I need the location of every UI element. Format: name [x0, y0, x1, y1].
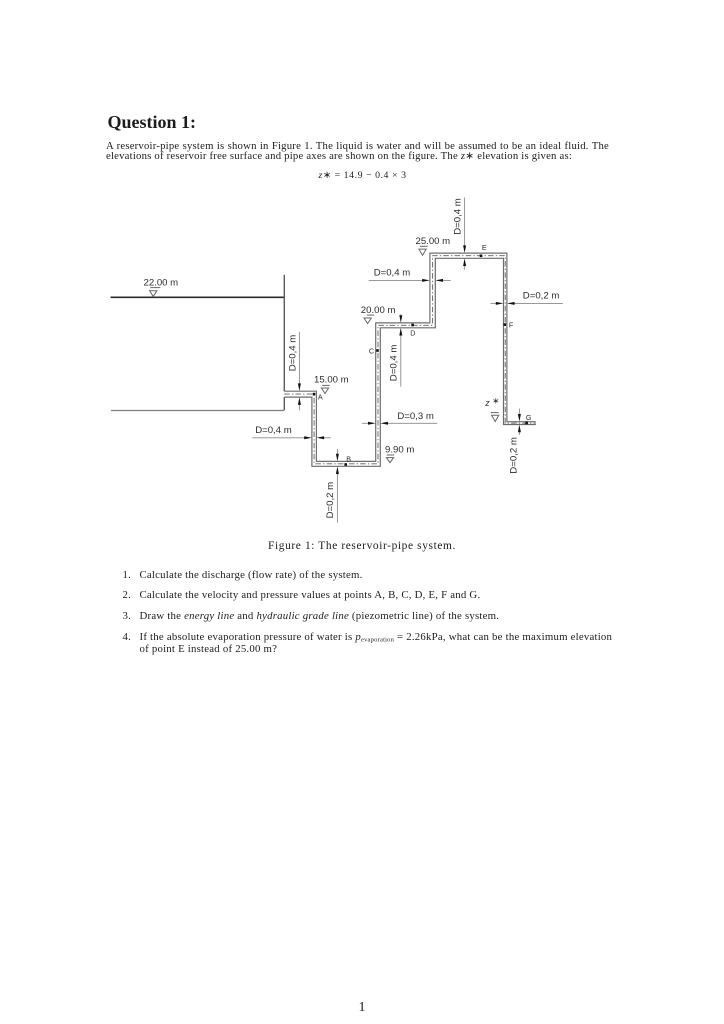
svg-text:F: F	[509, 321, 514, 330]
svg-text:E: E	[482, 243, 487, 252]
node A marker	[313, 393, 316, 396]
pipe centerline (dash-dot)	[284, 256, 536, 464]
list item 2	[123, 589, 132, 601]
svg-text:25.00 m: 25.00 m	[416, 236, 451, 247]
svg-text:z: z	[484, 398, 490, 408]
level marker 25.00 m	[419, 246, 428, 255]
dimension D=0,4 m for pipe at 25.00 m level (vertical dim line with rotated label)	[452, 198, 466, 270]
level marker 15.00 m	[321, 385, 329, 393]
dimension D=0,4 m for pipe A-B (horizontal dim line)	[252, 425, 330, 439]
svg-text:∗: ∗	[492, 396, 499, 406]
list item 4	[123, 631, 132, 643]
level marker 20.00 m	[364, 315, 374, 324]
svg-text:D=0,4 m: D=0,4 m	[389, 345, 400, 382]
dimension D=0,2 m for pipe E-F (horizontal dim line)	[490, 291, 563, 305]
paragraph	[106, 141, 609, 162]
svg-text:A: A	[318, 393, 323, 402]
pipe wall lower/inner polyline (A to G)	[284, 258, 536, 466]
node B marker	[344, 463, 347, 466]
svg-text:20.00 m: 20.00 m	[361, 305, 396, 316]
level marker 9.90 m	[386, 455, 394, 463]
dimension D=0,2 m at node B (vertical dim line with rotated label)	[325, 449, 339, 523]
reservoir right wall	[283, 275, 285, 410]
reservoir water surface line 22.00 m	[111, 296, 285, 298]
svg-text:C: C	[369, 346, 374, 355]
page number	[0, 1000, 724, 1016]
svg-text:D=0,4 m: D=0,4 m	[374, 268, 411, 279]
node F marker	[504, 323, 507, 326]
svg-text:G: G	[526, 413, 532, 422]
list item 3	[123, 610, 132, 622]
heading	[108, 112, 197, 133]
node E marker	[480, 255, 483, 258]
svg-text:D=0,2 m: D=0,2 m	[523, 291, 560, 302]
level marker 22.00 m	[150, 288, 161, 297]
svg-text:15.00 m: 15.00 m	[314, 374, 349, 385]
pipe wall upper/outer polyline (A to G)	[284, 253, 536, 461]
svg-text:D=0,2 m: D=0,2 m	[325, 482, 336, 519]
dimension D=0,4 m for pipe at 20.00 m level (vertical dim line with rotated label)	[389, 314, 403, 386]
dimension D=0,4 m for pipe A (vertical dim line with rotated label)	[287, 332, 301, 411]
svg-text:D=0,4 m: D=0,4 m	[452, 198, 463, 235]
equation	[106, 170, 619, 181]
svg-text:D: D	[410, 329, 415, 338]
dimension D=0,2 m at node G (vertical dim line with rotated label)	[508, 409, 521, 474]
svg-text:B: B	[346, 455, 351, 464]
figure caption	[0, 540, 724, 552]
svg-text:D=0,2 m: D=0,2 m	[508, 437, 519, 474]
dimension D=0,4 m for pipe D-E riser (horizontal dim line)	[369, 268, 451, 282]
svg-text:22.00 m: 22.00 m	[144, 278, 179, 289]
level marker z*	[491, 413, 499, 422]
node C marker	[376, 349, 379, 352]
node G marker	[525, 422, 528, 425]
svg-text:D=0,3 m: D=0,3 m	[397, 411, 434, 422]
node D marker	[411, 324, 414, 327]
svg-text:D=0,4 m: D=0,4 m	[255, 425, 292, 436]
dimension D=0,3 m for pipe B-C (horizontal dim line)	[362, 411, 437, 425]
reservoir bottom line	[111, 410, 284, 412]
list item 1	[123, 569, 132, 581]
svg-text:9.90 m: 9.90 m	[385, 445, 414, 456]
svg-text:D=0,4 m: D=0,4 m	[287, 335, 298, 372]
